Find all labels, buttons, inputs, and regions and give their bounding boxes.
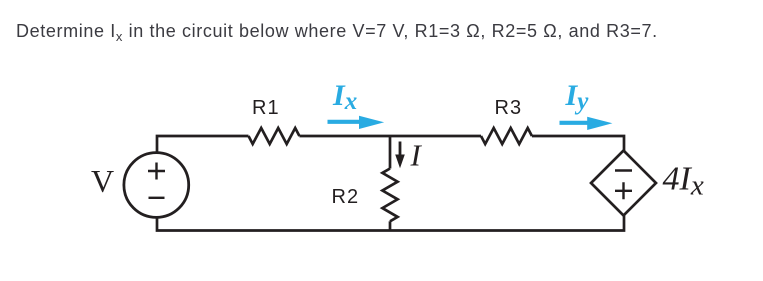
wire top-middle segment [299,135,481,138]
dependent source plus sign [615,182,632,199]
svg-text:V: V [91,163,114,199]
svg-text:I: I [410,138,423,173]
wire middle branch top [389,136,392,169]
wire top-left segment [157,136,249,154]
voltage source plus sign [148,163,165,180]
current arrow Ix (blue) [328,120,363,124]
dependent source minus sign [615,169,632,171]
current arrow I (middle branch) [399,142,402,157]
voltage source minus sign [149,197,165,199]
svg-text:R1: R1 [252,97,280,119]
svg-text:R2: R2 [332,186,360,208]
svg-text:Iy: Iy [565,79,590,115]
current arrow Iy (blue) [560,121,589,125]
resistor R1 [249,128,300,144]
wire bottom [157,216,624,231]
wire middle branch bottom [389,221,392,230]
svg-text:Ix: Ix [332,79,357,115]
title text [16,22,658,40]
voltage source V1 circle [124,153,189,218]
resistor R2 [382,169,397,222]
svg-text:R3: R3 [495,97,523,119]
dependent source U1 diamond [591,151,656,216]
svg-text:4Ix: 4Ix [663,161,704,202]
resistor R3 [481,128,532,144]
wire top-right segment [532,136,624,151]
